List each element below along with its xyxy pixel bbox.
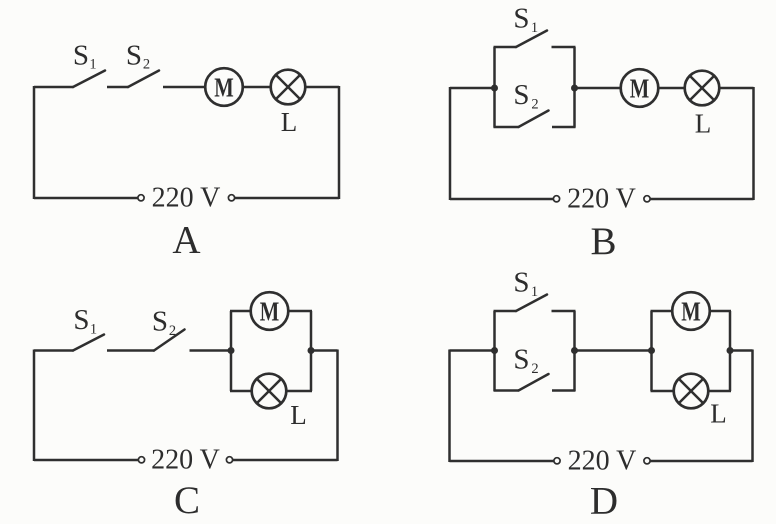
- wire D bottom branch right: [552, 389, 576, 392]
- svg-text:2: 2: [531, 97, 538, 113]
- wire B top branch left: [494, 46, 517, 49]
- label S1 (C): [73, 304, 97, 338]
- node ML right junction (D): [727, 347, 734, 354]
- wire C top-left horizontal: [34, 349, 74, 352]
- switch S2 blade: [128, 71, 159, 88]
- svg-text:M: M: [630, 74, 650, 104]
- wire B top branch right: [552, 46, 576, 49]
- wire C bottom branch right: [286, 390, 312, 393]
- wire A between S1 and S2: [107, 86, 129, 89]
- terminal left (D): [554, 458, 560, 464]
- wire B lamp to right corner: [719, 87, 753, 90]
- lamp L (D): [674, 374, 709, 409]
- wire D middle horizontal: [575, 349, 652, 352]
- switch S1 blade: [73, 71, 105, 88]
- svg-text:S: S: [513, 267, 529, 299]
- wire C right bus vertical: [310, 311, 313, 391]
- wire C junction to right corner: [311, 349, 338, 352]
- svg-text:220 V: 220 V: [567, 184, 636, 215]
- wire B bottom-right: [650, 198, 753, 201]
- wire D ML right bus vertical: [729, 311, 732, 391]
- wire C bottom-right: [233, 459, 338, 462]
- wire C between S1 and S2: [107, 349, 155, 352]
- wire B right vertical: [752, 87, 755, 200]
- label S2 (B): [513, 79, 538, 113]
- wire C top branch right: [288, 310, 312, 313]
- label S2 (D): [513, 344, 538, 378]
- switch S1 blade (B): [516, 31, 547, 48]
- wire B bottom branch left: [494, 126, 519, 129]
- wire D top branch right: [552, 310, 576, 313]
- motor M (D): [672, 292, 710, 330]
- wire D ML top branch left: [651, 310, 673, 313]
- switch S1 blade (C): [73, 335, 104, 351]
- wire C bottom branch left: [230, 390, 252, 393]
- wire D ML bottom branch left: [651, 390, 675, 393]
- wire C right vertical: [336, 350, 339, 462]
- lamp L (B): [685, 71, 720, 106]
- wire D ML left bus vertical: [650, 311, 653, 391]
- wire D left bus vertical: [493, 311, 496, 391]
- wire B motor to lamp: [658, 87, 685, 90]
- wire B junction to motor: [575, 87, 622, 90]
- terminal right (B): [644, 196, 650, 202]
- svg-text:1: 1: [89, 57, 96, 73]
- svg-text:220 V: 220 V: [152, 183, 221, 214]
- wire B right bus vertical: [573, 47, 576, 128]
- svg-text:L: L: [290, 400, 307, 430]
- node right junction (B): [571, 85, 578, 92]
- node left junction (D): [491, 347, 498, 354]
- svg-text:C: C: [174, 479, 200, 522]
- switch S2 blade (D): [519, 374, 549, 391]
- wire A bottom-left: [34, 197, 138, 200]
- motor M (A): [205, 68, 243, 106]
- switch S2 blade (B): [519, 111, 549, 128]
- svg-text:M: M: [260, 297, 280, 327]
- wire D bottom-left: [450, 460, 554, 463]
- svg-text:S: S: [513, 3, 529, 35]
- label S2 (C): [152, 306, 176, 340]
- terminal right (A): [228, 195, 234, 201]
- svg-text:2: 2: [143, 57, 150, 73]
- wire C left bus vertical: [230, 311, 233, 391]
- wire D right vertical: [751, 350, 754, 463]
- svg-text:B: B: [590, 220, 616, 263]
- node left junction (C): [228, 347, 235, 354]
- svg-text:S: S: [513, 79, 529, 111]
- wire C from S2 to parallel block: [190, 349, 232, 352]
- terminal left (C): [138, 457, 144, 463]
- wire B left bus vertical: [493, 47, 496, 128]
- svg-text:2: 2: [169, 323, 176, 339]
- wire A from S2 to motor: [163, 86, 205, 89]
- svg-text:2: 2: [531, 361, 538, 377]
- terminal left (A): [138, 195, 144, 201]
- wire A right vertical: [338, 86, 341, 199]
- svg-text:M: M: [681, 297, 701, 327]
- node switch right junction (D): [571, 347, 578, 354]
- terminal left (B): [553, 196, 559, 202]
- label S1 (D): [513, 267, 538, 301]
- svg-text:1: 1: [531, 20, 538, 36]
- svg-text:S: S: [513, 344, 529, 376]
- wire C top branch left: [230, 310, 251, 313]
- wire D switch right bus vertical: [573, 311, 576, 391]
- wire B left vertical: [449, 87, 452, 200]
- svg-text:220 V: 220 V: [151, 445, 220, 476]
- wire A left vertical: [33, 86, 36, 199]
- svg-text:1: 1: [531, 284, 538, 300]
- node right junction (C): [308, 347, 315, 354]
- terminal right (D): [644, 458, 650, 464]
- wire D bottom branch left: [494, 389, 519, 392]
- svg-text:S: S: [126, 40, 142, 72]
- wire D left vertical: [448, 350, 451, 463]
- wire D ML top branch right: [710, 310, 731, 313]
- terminal right (C): [226, 457, 232, 463]
- svg-text:1: 1: [90, 322, 97, 338]
- svg-text:S: S: [152, 306, 168, 338]
- svg-text:220 V: 220 V: [568, 446, 637, 477]
- svg-text:L: L: [695, 109, 712, 139]
- wire B bottom branch right: [552, 126, 576, 129]
- wire D bottom-right: [650, 460, 752, 463]
- svg-text:A: A: [172, 219, 200, 262]
- wire C left vertical: [33, 350, 36, 462]
- wire C bottom-left: [34, 459, 138, 462]
- label S2: [126, 40, 150, 73]
- svg-text:L: L: [710, 399, 727, 429]
- lamp L (C): [252, 374, 287, 409]
- svg-text:S: S: [73, 304, 89, 336]
- motor M (C): [251, 292, 289, 330]
- label S1: [73, 40, 97, 73]
- wire D top branch left: [494, 310, 517, 313]
- wire A lamp to right corner: [305, 86, 339, 89]
- wire A bottom-right: [235, 197, 339, 200]
- motor M (B): [621, 69, 659, 107]
- switch S2 blade (C): [154, 330, 185, 351]
- switch S1 blade (D): [516, 295, 547, 312]
- svg-text:S: S: [73, 40, 89, 72]
- wire A top-left horizontal: [34, 86, 74, 89]
- wire A motor to lamp: [243, 86, 271, 89]
- svg-text:M: M: [214, 73, 234, 103]
- wire D left horizontal: [450, 349, 495, 352]
- wire D ML bottom branch right: [708, 390, 731, 393]
- node left junction (B): [491, 85, 498, 92]
- svg-text:L: L: [281, 107, 298, 137]
- svg-text:D: D: [590, 480, 618, 523]
- node ML left junction (D): [648, 347, 655, 354]
- label S1 (B): [513, 3, 538, 37]
- wire B bottom-left: [450, 198, 553, 201]
- wire D junction to right corner: [730, 349, 753, 352]
- wire B left horizontal: [450, 87, 495, 90]
- lamp L (A): [271, 70, 306, 105]
